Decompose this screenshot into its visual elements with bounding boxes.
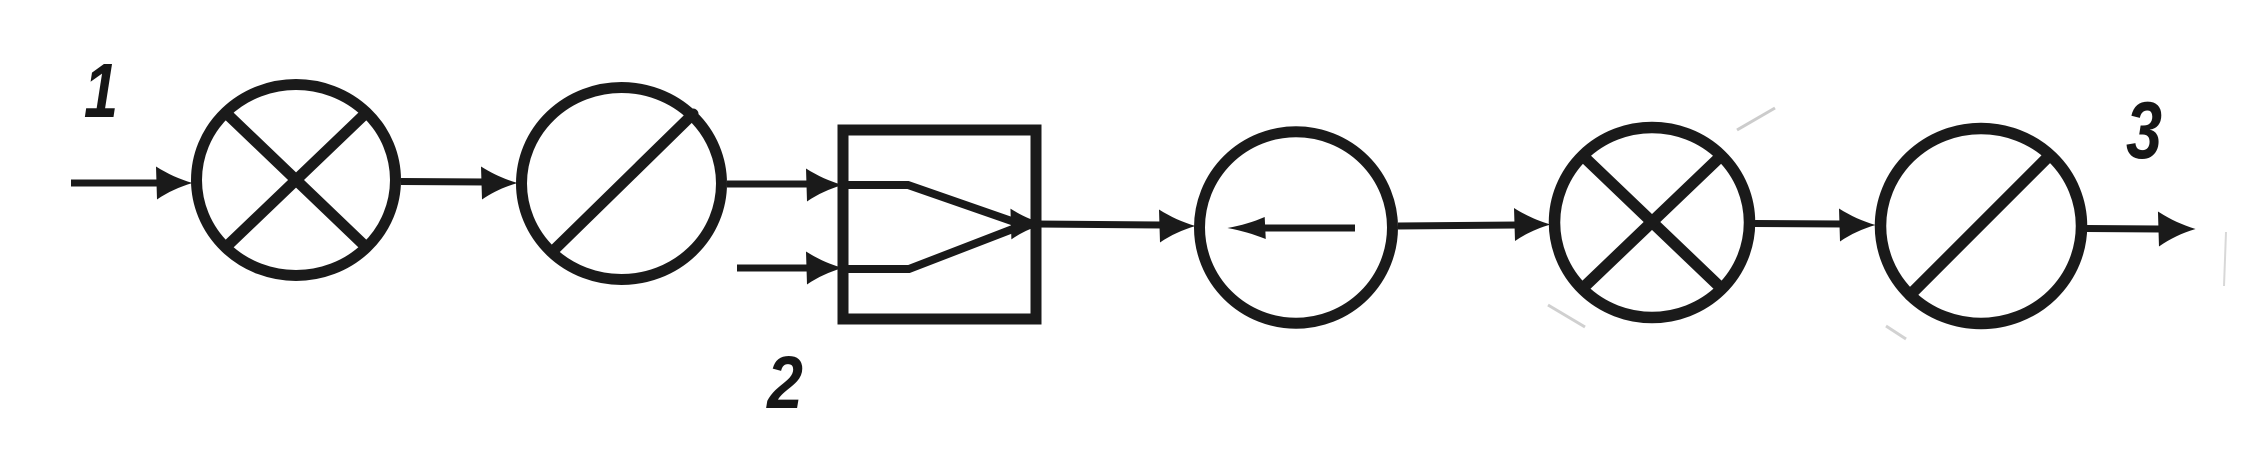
svg-text:2: 2 [765, 341, 803, 424]
wire U1 to attenuator U2 [401, 167, 518, 200]
combiner output arrowhead [1010, 209, 1044, 240]
svg-text:3: 3 [2126, 85, 2162, 176]
wire input 2 into combiner box [737, 252, 843, 285]
mixer U1 (circle with X) [197, 85, 396, 276]
wire U4 to mixer U5 [1398, 208, 1551, 241]
scan streak near mixer U5 top right [1737, 108, 1775, 130]
attenuator U6 (circle with slash) [1881, 129, 2082, 324]
wire output arrow node 3 [2087, 212, 2196, 247]
mixer U5 (circle with X) [1555, 128, 1750, 318]
wire input arrow into mixer U1 [71, 167, 193, 200]
wire U5 to attenuator U6 [1755, 209, 1876, 242]
combiner box U3 [843, 130, 1036, 319]
combiner symbol inside U3 [843, 185, 1014, 269]
wire U2 to combiner box [727, 169, 843, 202]
attenuator U2 (circle with slash) [522, 88, 722, 280]
scan streak near attenuator U6 bottom left [1886, 326, 1906, 339]
scan streak near mixer U5 bottom left [1548, 305, 1585, 327]
scan streak right margin [2224, 232, 2226, 286]
svg-text:1: 1 [84, 47, 118, 133]
wire U3 to isolator U4 [1036, 210, 1196, 243]
isolator U4 (circle with left arrow) [1200, 132, 1393, 323]
